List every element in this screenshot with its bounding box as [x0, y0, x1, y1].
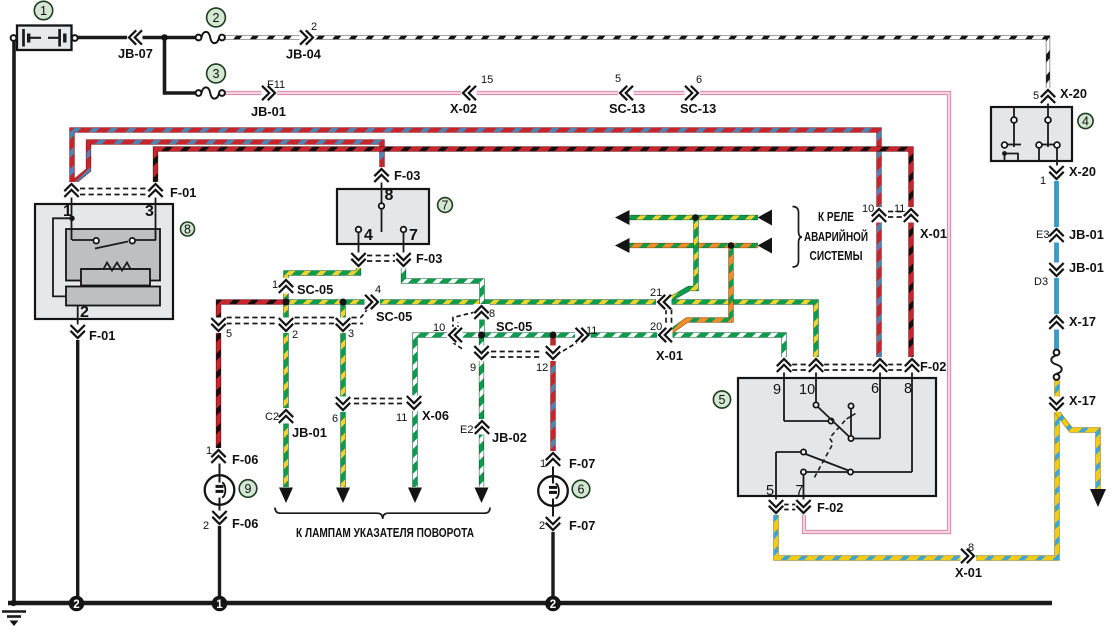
svg-text:2: 2: [80, 304, 89, 321]
svg-text:9: 9: [470, 362, 476, 374]
svg-text:JB-02: JB-02: [492, 430, 527, 445]
svg-text:JB-07: JB-07: [118, 46, 153, 61]
svg-text:9: 9: [773, 382, 781, 398]
svg-text:7: 7: [409, 227, 418, 244]
svg-text:4: 4: [375, 284, 381, 296]
svg-text:3: 3: [213, 67, 220, 81]
svg-text:1: 1: [540, 458, 546, 470]
svg-text:15: 15: [481, 74, 493, 86]
svg-text:11: 11: [396, 412, 407, 424]
svg-text:3: 3: [348, 328, 354, 340]
svg-text:F-01: F-01: [89, 328, 115, 343]
svg-text:2: 2: [203, 520, 209, 532]
svg-text:6: 6: [578, 482, 585, 496]
svg-text:10: 10: [799, 382, 815, 398]
svg-text:6: 6: [332, 413, 338, 425]
svg-text:F-02: F-02: [817, 500, 843, 515]
svg-text:X-17: X-17: [1069, 393, 1096, 408]
svg-text:8: 8: [489, 308, 495, 320]
svg-text:7: 7: [796, 483, 804, 499]
svg-text:E3: E3: [1036, 229, 1049, 241]
svg-text:К ЛАМПАМ УКАЗАТЕЛЯ ПОВОРОТА: К ЛАМПАМ УКАЗАТЕЛЯ ПОВОРОТА: [296, 525, 474, 540]
svg-text:X-01: X-01: [920, 226, 947, 241]
svg-text:8: 8: [385, 187, 394, 204]
svg-text:6: 6: [871, 381, 879, 397]
svg-text:F-03: F-03: [416, 251, 442, 266]
svg-text:JB-01: JB-01: [251, 104, 286, 119]
svg-text:2: 2: [539, 520, 545, 532]
svg-text:1: 1: [206, 445, 212, 457]
svg-text:E2: E2: [460, 424, 473, 436]
svg-text:JB-01: JB-01: [1069, 260, 1104, 275]
svg-text:SC-05: SC-05: [297, 282, 333, 297]
svg-text:JB-04: JB-04: [286, 47, 322, 62]
svg-text:11: 11: [586, 325, 597, 337]
svg-text:8: 8: [904, 381, 912, 397]
svg-text:1: 1: [272, 279, 278, 291]
svg-text:X-20: X-20: [1069, 164, 1096, 179]
svg-text:SC-13: SC-13: [609, 101, 645, 116]
svg-text:1: 1: [40, 4, 47, 18]
svg-text:1: 1: [216, 599, 223, 611]
svg-text:JB-01: JB-01: [292, 425, 327, 440]
svg-text:F-01: F-01: [170, 185, 196, 200]
svg-text:X-01: X-01: [955, 565, 982, 580]
svg-text:X-20: X-20: [1060, 86, 1087, 101]
svg-text:6: 6: [696, 74, 702, 86]
svg-text:10: 10: [433, 322, 445, 334]
svg-text:1: 1: [63, 203, 72, 220]
svg-text:2: 2: [292, 329, 298, 341]
svg-text:2: 2: [73, 599, 79, 611]
svg-text:X-01: X-01: [656, 348, 683, 363]
svg-text:3: 3: [145, 203, 154, 220]
svg-text:АВАРИЙНОЙ: АВАРИЙНОЙ: [804, 229, 868, 244]
svg-text:X-02: X-02: [450, 101, 477, 116]
svg-text:21: 21: [650, 287, 662, 299]
svg-text:2: 2: [550, 599, 556, 611]
svg-text:12: 12: [536, 362, 548, 374]
svg-text:1: 1: [1040, 175, 1046, 187]
svg-text:F-03: F-03: [394, 168, 420, 183]
svg-text:SC-05: SC-05: [376, 309, 412, 324]
svg-text:F-07: F-07: [569, 456, 595, 471]
svg-text:F11: F11: [267, 79, 285, 91]
svg-text:SC-05: SC-05: [496, 319, 532, 334]
svg-text:20: 20: [650, 321, 662, 333]
svg-text:2: 2: [213, 11, 220, 25]
svg-text:5: 5: [226, 328, 232, 340]
svg-text:5: 5: [719, 393, 726, 407]
svg-text:JB-01: JB-01: [1069, 227, 1104, 242]
svg-text:4: 4: [1082, 114, 1089, 128]
svg-text:5: 5: [766, 483, 774, 499]
svg-text:SC-13: SC-13: [680, 101, 716, 116]
svg-text:F-07: F-07: [569, 518, 595, 533]
svg-text:СИСТЕМЫ: СИСТЕМЫ: [810, 248, 863, 263]
svg-text:F-06: F-06: [232, 452, 258, 467]
svg-text:8: 8: [968, 542, 974, 554]
svg-text:5: 5: [615, 73, 621, 85]
svg-text:10: 10: [862, 203, 874, 215]
svg-text:D3: D3: [1034, 276, 1048, 288]
svg-text:К РЕЛЕ: К РЕЛЕ: [818, 209, 854, 224]
svg-text:X-06: X-06: [422, 408, 449, 423]
svg-text:8: 8: [184, 222, 191, 236]
svg-text:2: 2: [311, 21, 317, 33]
svg-text:9: 9: [245, 482, 252, 496]
svg-text:F-06: F-06: [232, 516, 258, 531]
svg-text:7: 7: [442, 198, 449, 212]
svg-text:5: 5: [1033, 90, 1039, 102]
svg-text:F-02: F-02: [920, 359, 946, 374]
svg-text:11: 11: [894, 203, 905, 215]
svg-text:C2: C2: [265, 411, 279, 423]
svg-text:4: 4: [364, 227, 373, 244]
svg-text:X-17: X-17: [1069, 314, 1096, 329]
